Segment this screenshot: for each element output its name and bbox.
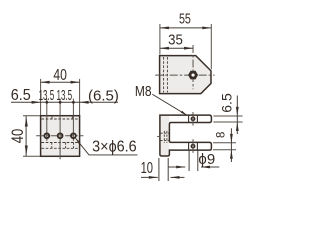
clevis bar hidden centerline stub [157, 136, 160, 138]
dim phi9: extension lines [188, 151, 190, 171]
hole 1 [44, 133, 49, 138]
svg-text:10: 10 [141, 158, 154, 177]
hidden line top horizontal [42, 118, 79, 120]
dim 6.5 right: dimension line segments [236, 96, 238, 135]
hidden line bottom horizontal 2 [42, 147, 79, 149]
hole 3 [71, 133, 76, 138]
hidden line bottom horizontal 1 [42, 142, 79, 144]
hole1 extension vertical [46, 99, 48, 141]
svg-text:40: 40 [53, 66, 67, 84]
dim 55: extension lines [159, 24, 161, 54]
svg-text:(6.5): (6.5) [88, 87, 119, 104]
svg-text:6.5: 6.5 [11, 87, 31, 105]
gusset top view outline [160, 56, 211, 94]
bottom arm hole ring [191, 145, 194, 148]
gusset centerline horizontal [155, 74, 214, 76]
hidden vertical stubs top [51, 116, 53, 119]
leader 3x6.6 [76, 138, 138, 155]
svg-text:35: 35 [168, 31, 183, 48]
clevis top arm fill [169, 115, 211, 122]
dim 40 top: dimension line [41, 81, 80, 83]
top arm hole center line [192, 112, 194, 126]
svg-text:13.5: 13.5 [56, 88, 72, 104]
dim 6.5 right: extension lines [213, 115, 242, 117]
dim 10: extension lines [158, 158, 160, 181]
svg-text:8: 8 [214, 132, 227, 138]
svg-text:13.5: 13.5 [39, 88, 55, 104]
svg-text:M8: M8 [135, 83, 152, 100]
dim 10: dimension line segments [141, 176, 158, 178]
hole 2 [58, 133, 63, 138]
clevis outline [160, 115, 212, 156]
svg-text:3×ϕ6.6: 3×ϕ6.6 [92, 138, 137, 156]
gusset hidden dashed verticals [163, 57, 165, 92]
dim phi9: dimension line segments [168, 166, 185, 168]
clevis bar fill [160, 115, 170, 156]
svg-text:40: 40 [9, 129, 28, 144]
dim dots at hole centers [45, 101, 48, 104]
svg-text:ϕ9: ϕ9 [198, 151, 215, 168]
bottom arm hole center line [192, 139, 194, 153]
svg-text:55: 55 [179, 11, 191, 27]
plate front view (40x40) [41, 116, 80, 157]
clevis bar hidden dashes [161, 132, 170, 134]
top arm hole ring [191, 117, 194, 120]
dim 40 left: dimension line [25, 116, 27, 157]
hole3 extension vertical [72, 99, 74, 141]
dim 55: dimension line [160, 27, 211, 29]
hole2 extension vertical [59, 99, 61, 160]
nut center vertical line [192, 45, 194, 89]
hidden vertical stubs bottom [51, 143, 53, 149]
dim 8 right: dimension line segments [230, 128, 232, 162]
top arm hole ticks [188, 116, 190, 122]
clevis bottom arm fill [169, 142, 211, 150]
nut M8 hexagon [188, 71, 198, 80]
dim 40 top: extension lines [40, 79, 42, 115]
dim 8 right: extension lines [213, 142, 236, 144]
svg-text:6.5: 6.5 [219, 93, 235, 113]
hole centerline horizontal [36, 135, 83, 137]
bottom arm hole ticks [188, 143, 190, 150]
dim 40 left: extension lines [23, 115, 40, 117]
dim 6.5/13.5/13.5/(6.5): dimension line [11, 101, 118, 103]
dim 35: dimension line [160, 47, 193, 49]
